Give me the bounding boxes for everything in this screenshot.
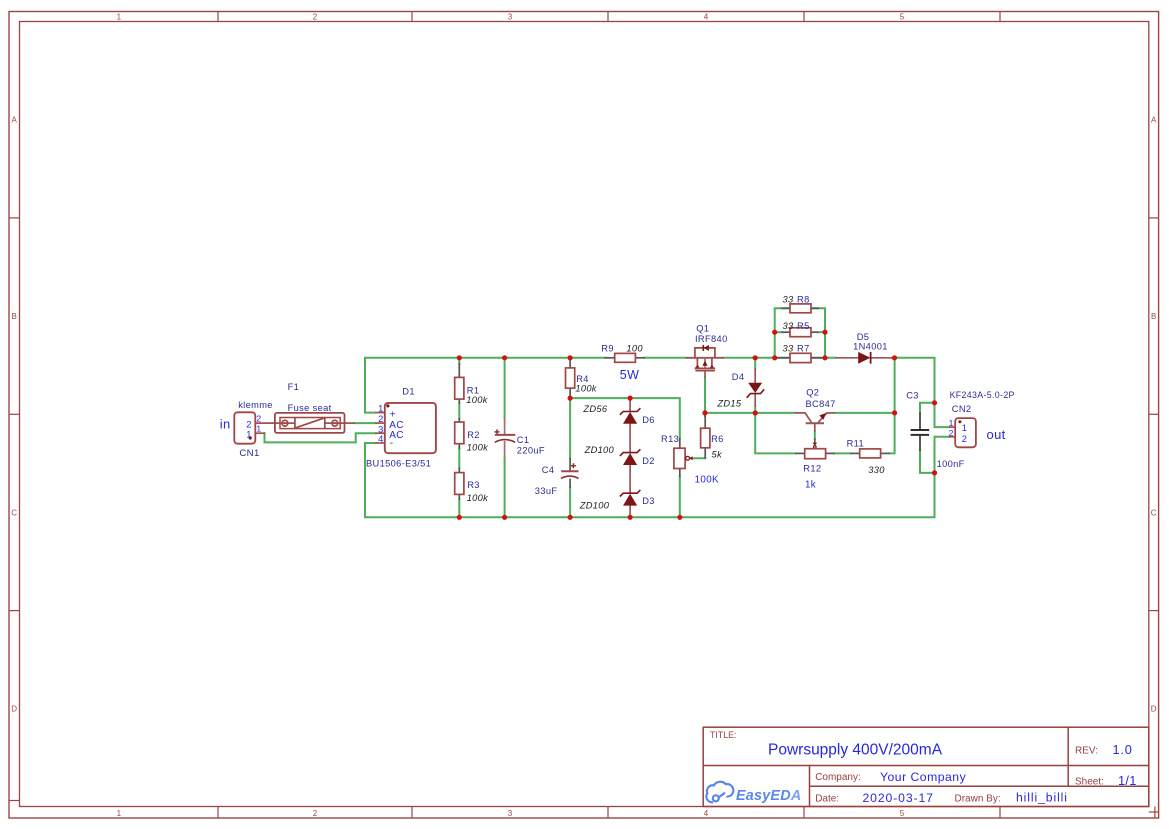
capacitor C4 lead top xyxy=(569,458,571,471)
svg-text:D5: D5 xyxy=(857,332,870,342)
capacitor C3 lead top xyxy=(919,412,921,429)
bottom margin column ticks xyxy=(218,807,1155,819)
title block table xyxy=(703,727,1149,806)
zener chain D2-D3 lead xyxy=(629,465,631,494)
fuse F1 dividers and diagonal element xyxy=(295,418,325,429)
wire net from D1 pin1 up-left to top bus over to R9 xyxy=(365,358,605,413)
wire fuse F1 right section xyxy=(325,422,355,424)
connector CN2 body xyxy=(955,418,976,447)
svg-text:B: B xyxy=(1151,312,1156,321)
mosfet Q1 gate bar xyxy=(695,370,715,372)
svg-text:1: 1 xyxy=(117,809,122,818)
fuse F1 inner body xyxy=(280,418,340,429)
svg-text:R12: R12 xyxy=(803,464,821,474)
svg-text:2: 2 xyxy=(246,420,252,430)
svg-text:C: C xyxy=(11,508,17,517)
resistor R12 body xyxy=(805,449,826,459)
junction dots xyxy=(457,330,937,520)
wire mid rail node down and right to R12 xyxy=(755,413,795,454)
wire C1 to bottom bus xyxy=(504,457,506,518)
capacitor C1 bottom curved plate xyxy=(495,440,516,443)
svg-text:3: 3 xyxy=(378,424,384,434)
connector CN1 pin1 polarity dot xyxy=(249,436,252,439)
diode D5 cathode lead xyxy=(870,357,892,359)
resistor R4 lead bottom xyxy=(569,388,571,398)
svg-text:D: D xyxy=(11,705,17,714)
svg-text:R4: R4 xyxy=(576,374,589,384)
transistor Q2 emitter arrow xyxy=(819,413,826,420)
diode D5 triangle xyxy=(858,352,870,364)
connector CN2 pin1 polarity dot xyxy=(958,420,961,423)
zener D4 cathode lead xyxy=(754,393,756,407)
wire C3 top branch xyxy=(920,403,935,413)
svg-text:F1: F1 xyxy=(288,382,300,392)
wire R8/R5 parallel cluster left vertical xyxy=(775,308,790,358)
resistor R6 lead bottom xyxy=(704,448,706,459)
right margin row ticks xyxy=(1149,218,1159,812)
capacitor C1 lead top xyxy=(504,418,506,435)
rectifier D1 pin 4 stub xyxy=(375,442,385,444)
fuse F1 outer body xyxy=(275,413,345,433)
potentiometer R13 body xyxy=(674,448,685,468)
svg-text:C1: C1 xyxy=(517,435,530,445)
svg-text:EasyEDA: EasyEDA xyxy=(736,788,801,804)
svg-text:2: 2 xyxy=(378,414,384,424)
top margin column numbers xyxy=(117,13,905,22)
svg-text:R7: R7 xyxy=(797,344,810,354)
svg-text:2020-03-17: 2020-03-17 xyxy=(863,791,934,805)
svg-text:100k: 100k xyxy=(466,395,488,405)
diode D5 cathode bar xyxy=(870,352,872,364)
transistor Q2 collector lead xyxy=(795,413,812,423)
resistor R6 lead top xyxy=(704,416,706,429)
svg-text:A: A xyxy=(12,116,18,125)
fuse F1 right clip terminal xyxy=(332,420,338,426)
svg-text:Drawn By:: Drawn By: xyxy=(955,794,1001,805)
resistor R12 wiper arrow and circle xyxy=(813,443,818,449)
svg-text:R5: R5 xyxy=(797,321,810,331)
wire D4 anode stub to top bus xyxy=(754,358,756,369)
connector CN2 pin 2 stub xyxy=(949,436,956,438)
svg-text:5: 5 xyxy=(900,13,905,22)
rectifier D1 pin1 polarity dot xyxy=(386,404,389,407)
resistor R9 leads xyxy=(604,357,645,359)
wire Q2 emitter to vertical xyxy=(835,412,895,414)
fuse F1 left clip terminal xyxy=(282,420,288,426)
svg-text:33uF: 33uF xyxy=(535,486,558,496)
wire CN1 pin2 to fuse F1 left section xyxy=(255,422,294,424)
svg-text:D3: D3 xyxy=(642,496,655,506)
svg-text:4: 4 xyxy=(704,809,709,818)
zener diode D4 triangle xyxy=(748,383,762,393)
capacitor C4 top plate xyxy=(561,470,578,472)
svg-text:klemme: klemme xyxy=(238,400,273,410)
svg-text:Q1: Q1 xyxy=(696,323,709,333)
svg-text:D2: D2 xyxy=(642,456,655,466)
left margin row letters xyxy=(11,116,17,714)
svg-text:CN1: CN1 xyxy=(239,448,259,459)
svg-text:in: in xyxy=(220,416,231,431)
capacitor C3 top plate xyxy=(911,429,930,431)
resistor R5 body xyxy=(790,328,811,337)
zener diode D3 triangle xyxy=(623,494,637,506)
wire R1-R2 link xyxy=(458,404,460,419)
mosfet Q1 channel contact feet xyxy=(695,365,715,368)
EasyEDA logo cloud icon xyxy=(706,782,733,803)
bridge rectifier D1 body xyxy=(385,403,436,453)
mosfet Q1 substrate arrow xyxy=(702,359,707,368)
potentiometer R13 wiper circle and arrow xyxy=(686,456,693,460)
svg-text:100k: 100k xyxy=(467,443,489,453)
right margin row letters xyxy=(1151,116,1157,714)
svg-text:out: out xyxy=(987,427,1006,442)
wire R6 top stub xyxy=(704,413,706,416)
capacitor C4 bottom curved plate xyxy=(561,476,579,478)
svg-text:R13: R13 xyxy=(661,434,679,444)
svg-text:1k: 1k xyxy=(805,480,816,491)
wire R13 to bottom bus xyxy=(679,477,681,518)
svg-text:1.0: 1.0 xyxy=(1113,742,1133,757)
svg-text:1: 1 xyxy=(949,418,954,428)
rectifier D1 pin 1 stub xyxy=(375,412,385,414)
svg-text:100k: 100k xyxy=(467,493,489,503)
svg-text:R11: R11 xyxy=(847,439,864,449)
resistor R6 body xyxy=(701,428,710,448)
rectifier D1 pin 2 stub xyxy=(375,422,385,424)
svg-text:100K: 100K xyxy=(695,475,719,486)
svg-text:Company:: Company: xyxy=(815,772,861,783)
top margin column ticks xyxy=(218,12,1000,22)
svg-text:BC847: BC847 xyxy=(806,399,836,409)
wire R12 to R11 xyxy=(834,452,850,454)
connector CN1 pin 1 stub xyxy=(255,432,265,434)
svg-text:R2: R2 xyxy=(467,430,480,440)
transistor Q2 emitter lead xyxy=(818,413,835,423)
svg-text:1: 1 xyxy=(256,424,261,434)
zener D4 anode lead xyxy=(754,368,756,383)
wire R2-R3 link xyxy=(458,449,460,469)
wire R1 top stub xyxy=(458,358,460,364)
resistor R3 lead bottom xyxy=(458,494,460,500)
zener diode D2 cathode bar xyxy=(620,449,641,456)
svg-text:3: 3 xyxy=(508,809,513,818)
wire D4 cathode stub to mid rail xyxy=(754,406,756,413)
svg-text:Q2: Q2 xyxy=(806,387,819,397)
wire R9 to Q1 drain xyxy=(645,357,686,359)
svg-text:C4: C4 xyxy=(542,465,555,475)
svg-text:1: 1 xyxy=(246,430,252,440)
resistor R8 leads xyxy=(782,307,820,309)
resistor R11 body xyxy=(860,449,881,458)
potentiometer R13 lead top xyxy=(679,438,681,449)
resistor R8 body xyxy=(790,304,811,313)
potentiometer R13 lead bottom xyxy=(679,468,681,477)
svg-text:1N4001: 1N4001 xyxy=(853,341,888,351)
svg-text:1: 1 xyxy=(117,13,122,22)
svg-text:33: 33 xyxy=(783,321,794,331)
resistor R1 lead bottom xyxy=(458,399,460,405)
svg-text:100k: 100k xyxy=(575,384,597,394)
wire R6 bottom to R13 wiper xyxy=(691,457,706,459)
capacitor C3 bottom plate xyxy=(911,434,930,436)
svg-text:5: 5 xyxy=(900,809,905,818)
wire R5 left stub xyxy=(775,331,782,333)
svg-text:Fuse seat: Fuse seat xyxy=(288,403,332,413)
svg-text:IRF840: IRF840 xyxy=(695,334,728,344)
svg-text:REV:: REV: xyxy=(1075,746,1098,757)
wire Q2 base link xyxy=(814,431,816,438)
zener diode D6 triangle xyxy=(623,412,637,424)
svg-text:hilli_billi: hilli_billi xyxy=(1016,791,1068,805)
mosfet Q1 body diode triangle xyxy=(704,345,709,351)
mosfet Q1 channel drops xyxy=(697,358,712,367)
resistor R7 body xyxy=(790,353,811,362)
svg-text:KF243A-5.0-2P: KF243A-5.0-2P xyxy=(950,390,1015,400)
resistor R3 lead top xyxy=(458,467,460,473)
svg-text:100nF: 100nF xyxy=(937,459,965,469)
mosfet Q1 channel bar xyxy=(695,367,716,369)
svg-text:2: 2 xyxy=(949,428,954,438)
diode D5 anode lead xyxy=(835,357,858,359)
svg-text:ZD100: ZD100 xyxy=(579,501,610,511)
resistor R11 leads xyxy=(850,452,889,454)
svg-text:D4: D4 xyxy=(732,372,745,382)
resistor R5 leads xyxy=(782,331,819,333)
wire CN1 pin 1 jog under fuse to D1 pin 3 xyxy=(265,433,376,442)
resistor R3 body xyxy=(455,473,464,495)
resistor R1 body xyxy=(455,377,464,399)
wire D5 cathode to top-right corner down to CN2 pin 1 xyxy=(893,358,950,427)
svg-text:D: D xyxy=(1151,705,1157,714)
wire fuse F1 to D1 pin 2 xyxy=(355,422,376,424)
svg-text:5W: 5W xyxy=(620,368,639,382)
bottom margin column numbers xyxy=(117,809,905,818)
transistor Q2 base lead lower gray xyxy=(814,438,816,443)
wire rail to C4 xyxy=(569,398,571,458)
capacitor C1 lead bottom xyxy=(504,441,506,457)
svg-text:330: 330 xyxy=(868,465,885,475)
svg-text:2: 2 xyxy=(256,413,261,423)
svg-text:R1: R1 xyxy=(467,385,480,395)
svg-text:4: 4 xyxy=(704,13,709,22)
svg-text:+: + xyxy=(390,409,396,420)
svg-text:D6: D6 xyxy=(642,415,655,425)
svg-text:Your Company: Your Company xyxy=(880,770,967,784)
svg-text:220uF: 220uF xyxy=(517,445,545,455)
svg-text:100: 100 xyxy=(626,344,643,354)
wire ground net D1 pin4 bottom bus to CN2 pin 2 xyxy=(365,437,949,518)
wire R5 right stub xyxy=(818,331,825,333)
resistor R12 leads xyxy=(795,452,834,454)
svg-text:CN2: CN2 xyxy=(952,404,972,414)
svg-text:5k: 5k xyxy=(712,450,723,460)
wire R3 to bottom bus xyxy=(458,499,460,517)
resistor R2 body xyxy=(455,422,464,444)
svg-text:R9: R9 xyxy=(601,344,614,354)
transistor Q2 base bar xyxy=(806,422,824,424)
zener diode D4 cathode bar xyxy=(747,389,765,398)
rectifier D1 pin 3 stub xyxy=(375,432,385,434)
svg-text:A: A xyxy=(1151,116,1157,125)
svg-text:Powrsupply 400V/200mA: Powrsupply 400V/200mA xyxy=(768,742,943,759)
svg-text:1: 1 xyxy=(378,404,384,414)
zener diode D3 cathode bar xyxy=(620,490,641,497)
wire Q1 to gate-resistor cluster to D5 anode xyxy=(724,357,836,359)
svg-text:TITLE:: TITLE: xyxy=(710,730,736,740)
mosfet Q1 source lead xyxy=(704,371,706,378)
svg-text:R6: R6 xyxy=(711,434,724,444)
svg-text:2: 2 xyxy=(313,809,318,818)
mosfet Q1 body-diode loop xyxy=(695,348,715,358)
svg-text:33: 33 xyxy=(783,344,794,354)
wire Q1 source down to mid rail xyxy=(704,377,706,413)
resistor R7 leads xyxy=(777,357,824,359)
mosfet Q1 drain-source horizontal bar xyxy=(686,357,725,359)
wire R11 right up to mid rail and D5 node xyxy=(889,358,894,454)
resistor R2 lead bottom xyxy=(458,443,460,449)
wire R8/R5 parallel cluster right vertical xyxy=(811,308,825,358)
svg-text:ZD15: ZD15 xyxy=(716,399,741,409)
svg-text:ZD56: ZD56 xyxy=(582,404,607,414)
resistor R2 lead top xyxy=(458,418,460,423)
svg-text:B: B xyxy=(12,312,17,321)
svg-text:Sheet:: Sheet: xyxy=(1075,776,1104,787)
zener chain D6 anode lead xyxy=(629,398,631,412)
svg-text:3: 3 xyxy=(508,13,513,22)
connector CN1 body xyxy=(234,412,255,443)
capacitor C4 plus sign xyxy=(571,463,576,468)
svg-text:Date:: Date: xyxy=(815,794,839,805)
wire mid rail Q1/R6 node to D4 to Q2 collector xyxy=(705,412,795,414)
wire C3 bottom branch xyxy=(920,451,935,473)
svg-text:33: 33 xyxy=(783,295,794,305)
capacitor C1 plus sign xyxy=(495,429,500,434)
left margin row ticks xyxy=(9,218,20,801)
svg-text:-: - xyxy=(390,438,394,449)
svg-text:BU1506-E3/51: BU1506-E3/51 xyxy=(366,459,431,469)
svg-text:4: 4 xyxy=(378,434,384,444)
zener chain D6-D2 lead xyxy=(629,423,631,453)
zener chain D3 cathode lead to bus xyxy=(629,505,631,517)
svg-text:C: C xyxy=(1151,508,1157,517)
wire C4 to bottom bus xyxy=(569,487,571,517)
resistor R4 body xyxy=(566,368,575,388)
svg-text:R8: R8 xyxy=(797,295,810,305)
wire zener reference rail R4 to R13 xyxy=(570,398,680,438)
svg-text:2: 2 xyxy=(962,434,968,444)
svg-text:D1: D1 xyxy=(402,386,415,396)
capacitor C4 lead bottom xyxy=(569,479,571,488)
mosfet Q1 body diode bar xyxy=(702,345,704,351)
transistor Q2 base lead xyxy=(814,423,816,431)
resistor R4 lead top xyxy=(569,359,571,368)
svg-text:C3: C3 xyxy=(906,391,919,401)
svg-text:ZD100: ZD100 xyxy=(584,445,615,455)
resistor R1 lead top xyxy=(458,363,460,378)
resistor R9 body xyxy=(615,353,636,362)
connector CN2 pin 1 stub xyxy=(949,426,956,428)
zener diode D2 triangle xyxy=(623,453,637,465)
svg-text:R3: R3 xyxy=(467,480,480,490)
capacitor C1 top plate xyxy=(495,434,515,436)
capacitor C3 lead bottom xyxy=(919,435,921,451)
svg-text:2: 2 xyxy=(313,13,318,22)
svg-text:1/1: 1/1 xyxy=(1118,773,1137,788)
zener diode D6 cathode bar xyxy=(620,408,641,415)
svg-text:1: 1 xyxy=(962,423,968,433)
wire top bus to C1 xyxy=(504,358,506,419)
